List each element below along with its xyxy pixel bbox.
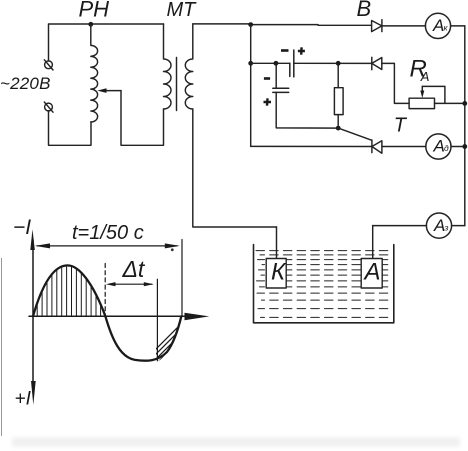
graph X axis (time): [29, 313, 209, 320]
autotransformer PH winding: [91, 24, 98, 122]
wire: tap down and to MT primary bottom: [121, 91, 164, 146]
wire: gate diagonal to thyristor: [338, 128, 372, 140]
wire: A3 left to anode: [373, 225, 427, 227]
resistor R1: [334, 88, 343, 115]
svg-text:В: В: [357, 0, 372, 21]
wire: resistor top lead: [337, 63, 339, 87]
transformer MT primary winding: [164, 24, 172, 109]
svg-text:д: д: [444, 143, 449, 153]
svg-text:А: А: [363, 259, 381, 286]
electrolyte liquid (dashed): [256, 251, 391, 318]
period dimension arrow t=1/50s: [35, 240, 182, 317]
transformer MT core: [176, 58, 178, 111]
diode B (top rectifier): [372, 20, 382, 32]
svg-text:К: К: [271, 259, 287, 286]
node: junction dot control upper: [248, 61, 253, 66]
wire: left vertical of control circuit: [250, 25, 252, 147]
wire: diode B to ammeter Ak: [382, 25, 426, 27]
electrode A (anode plate): [361, 259, 382, 289]
thyristor T rail left part: [251, 145, 372, 147]
scan artifact: left edge line: [1, 258, 3, 436]
label plus of C1: [298, 47, 305, 54]
svg-text:к: к: [444, 23, 449, 33]
wire: Ak to right bus: [451, 25, 465, 27]
wire: right bus vertical: [464, 26, 466, 226]
svg-text:t=1/50 c: t=1/50 c: [72, 222, 144, 244]
wire: anode lead down into bath: [372, 226, 374, 259]
transformer MT secondary winding: [185, 24, 192, 109]
svg-text:А: А: [433, 216, 445, 235]
wire: MT secondary bottom down to bath feed: [193, 109, 277, 227]
graph Y axis: [30, 229, 35, 405]
label plus of C2: [264, 98, 272, 105]
svg-text:~220В: ~220В: [0, 74, 51, 93]
wire: Ad to right bus: [451, 146, 465, 148]
scan artifact: bottom smudge: [12, 438, 460, 447]
node: junction dot top rail control branch: [248, 22, 253, 27]
rheostat RA wiper arrow: [420, 86, 445, 103]
wire: middle diode to rheostat: [382, 63, 409, 103]
wire: control upper horizontal to capacitor C1: [251, 62, 290, 64]
svg-text:з: з: [444, 222, 449, 232]
svg-text:+I: +I: [15, 389, 32, 410]
wire: C2 bottom to thyristor node: [276, 92, 338, 128]
node: junction dot below resistor: [336, 126, 341, 131]
wire: C1 to resistor node and diode: [294, 62, 372, 64]
svg-text:Т: Т: [394, 115, 408, 137]
wire: top-left rail from source to MT primary: [49, 24, 164, 61]
wire: top rail from MT secondary to diode B: [193, 24, 372, 25]
svg-text:А: А: [432, 16, 444, 35]
svg-text:МТ: МТ: [167, 0, 198, 21]
wire: thyristor to ammeter Ad: [382, 146, 426, 148]
rheostat RA body: [409, 98, 434, 108]
capacitor C2 (electrolytic, vertical): [273, 88, 289, 92]
dashed ordinate at first zero crossing: [104, 264, 106, 316]
label minus of C1: [281, 49, 289, 52]
wire: source bottom return to autotransformer bottom: [49, 111, 92, 145]
ammeter Ak circle: [425, 13, 450, 38]
node: junction dot bus-rheostat: [462, 101, 467, 106]
sine current curve: [33, 265, 181, 360]
delta-t dimension arrow: [106, 282, 154, 286]
svg-text:Δt: Δt: [122, 256, 146, 282]
terminal plug X2 (circle with slash): [44, 102, 53, 112]
terminal plug X1 (circle with slash): [44, 60, 53, 70]
wire: A3 to right bus: [452, 225, 465, 227]
svg-text:РН: РН: [79, 0, 110, 22]
ammeter A3 circle: [426, 213, 451, 238]
svg-text:А: А: [420, 69, 430, 84]
wire: resistor bottom lead: [337, 115, 339, 129]
capacitor C1 (electrolytic, horizontal): [290, 50, 294, 77]
node: junction dot on top rail at PH: [88, 22, 93, 27]
thyristor T symbol: [372, 140, 382, 153]
node: junction dot at C2 branch: [274, 61, 279, 66]
vertical hatching of positive half-wave: [37, 260, 100, 317]
label minus of C2: [264, 77, 270, 80]
svg-text:−I: −I: [13, 216, 31, 239]
ink speck: [171, 248, 174, 251]
wire: cathode lead down into bath: [276, 227, 278, 258]
wiper tap arrow of PH: [97, 88, 121, 93]
wire: down to capacitor C2: [275, 63, 277, 88]
diagonal hatching of cut region: [138, 313, 222, 367]
node: junction dot above resistor: [336, 61, 341, 66]
svg-text:А: А: [433, 137, 445, 156]
delta-t right boundary line: [156, 279, 158, 361]
electrode K (cathode plate): [266, 259, 286, 289]
node: junction dot bus-Ad: [462, 144, 467, 149]
electrolytic bath container: [254, 245, 394, 323]
wire: rheostat output to right bus: [435, 102, 465, 104]
ammeter Ad circle: [426, 134, 451, 159]
diode D2 (middle, pointing left): [372, 57, 382, 69]
